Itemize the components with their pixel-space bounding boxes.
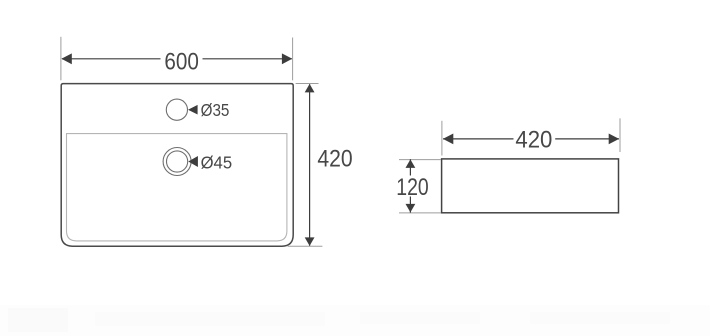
dim 420 (side view) line xyxy=(443,138,514,140)
dim 420 (side view) left arrowhead xyxy=(443,134,453,145)
dim 120 down arrowhead xyxy=(406,204,416,213)
dim 600 left extension line xyxy=(60,37,62,81)
dim 120 line lower segment xyxy=(409,197,411,213)
basin outer rim (top view) xyxy=(61,84,293,247)
svg-text:Ø45: Ø45 xyxy=(201,153,233,173)
dim 420 (left view) line xyxy=(309,84,311,246)
dim 600 line xyxy=(62,58,161,60)
dim 120 bottom extension line xyxy=(399,212,441,214)
svg-text:420: 420 xyxy=(515,127,552,154)
svg-text:Ø35: Ø35 xyxy=(201,100,230,120)
dim 420 (side view) left extension line xyxy=(441,121,443,156)
basin inner bowl edge xyxy=(67,134,287,241)
dim 420 (left view) down arrowhead xyxy=(305,237,315,246)
dim 420 (left view) bottom extension line xyxy=(288,245,323,247)
dim 120 up arrowhead xyxy=(406,159,416,168)
dim 420 (left view) top extension line xyxy=(296,83,319,85)
drain inner circle xyxy=(167,151,188,172)
dim 600 left arrowhead xyxy=(61,53,71,64)
svg-text:600: 600 xyxy=(164,48,199,75)
drain outer circle xyxy=(163,148,191,176)
side view body rectangle xyxy=(442,159,619,213)
dim 420 (left view) up arrowhead xyxy=(305,84,315,93)
dim 600 right extension line xyxy=(292,38,294,81)
dim 120 top extension line xyxy=(399,159,441,161)
dim 420 (side view) right arrowhead xyxy=(609,134,619,145)
svg-text:420: 420 xyxy=(317,146,352,173)
svg-text:120: 120 xyxy=(396,174,428,201)
dim 600 right arrowhead xyxy=(282,53,292,64)
drain label arrow xyxy=(188,156,198,167)
faucet hole circle xyxy=(166,99,187,120)
dim 120 line upper segment xyxy=(409,159,411,175)
dim 420 (side view) right extension line xyxy=(619,118,621,152)
faint watermark remnants (bottom bar) xyxy=(0,305,710,336)
faucet hole label arrow xyxy=(188,105,198,115)
